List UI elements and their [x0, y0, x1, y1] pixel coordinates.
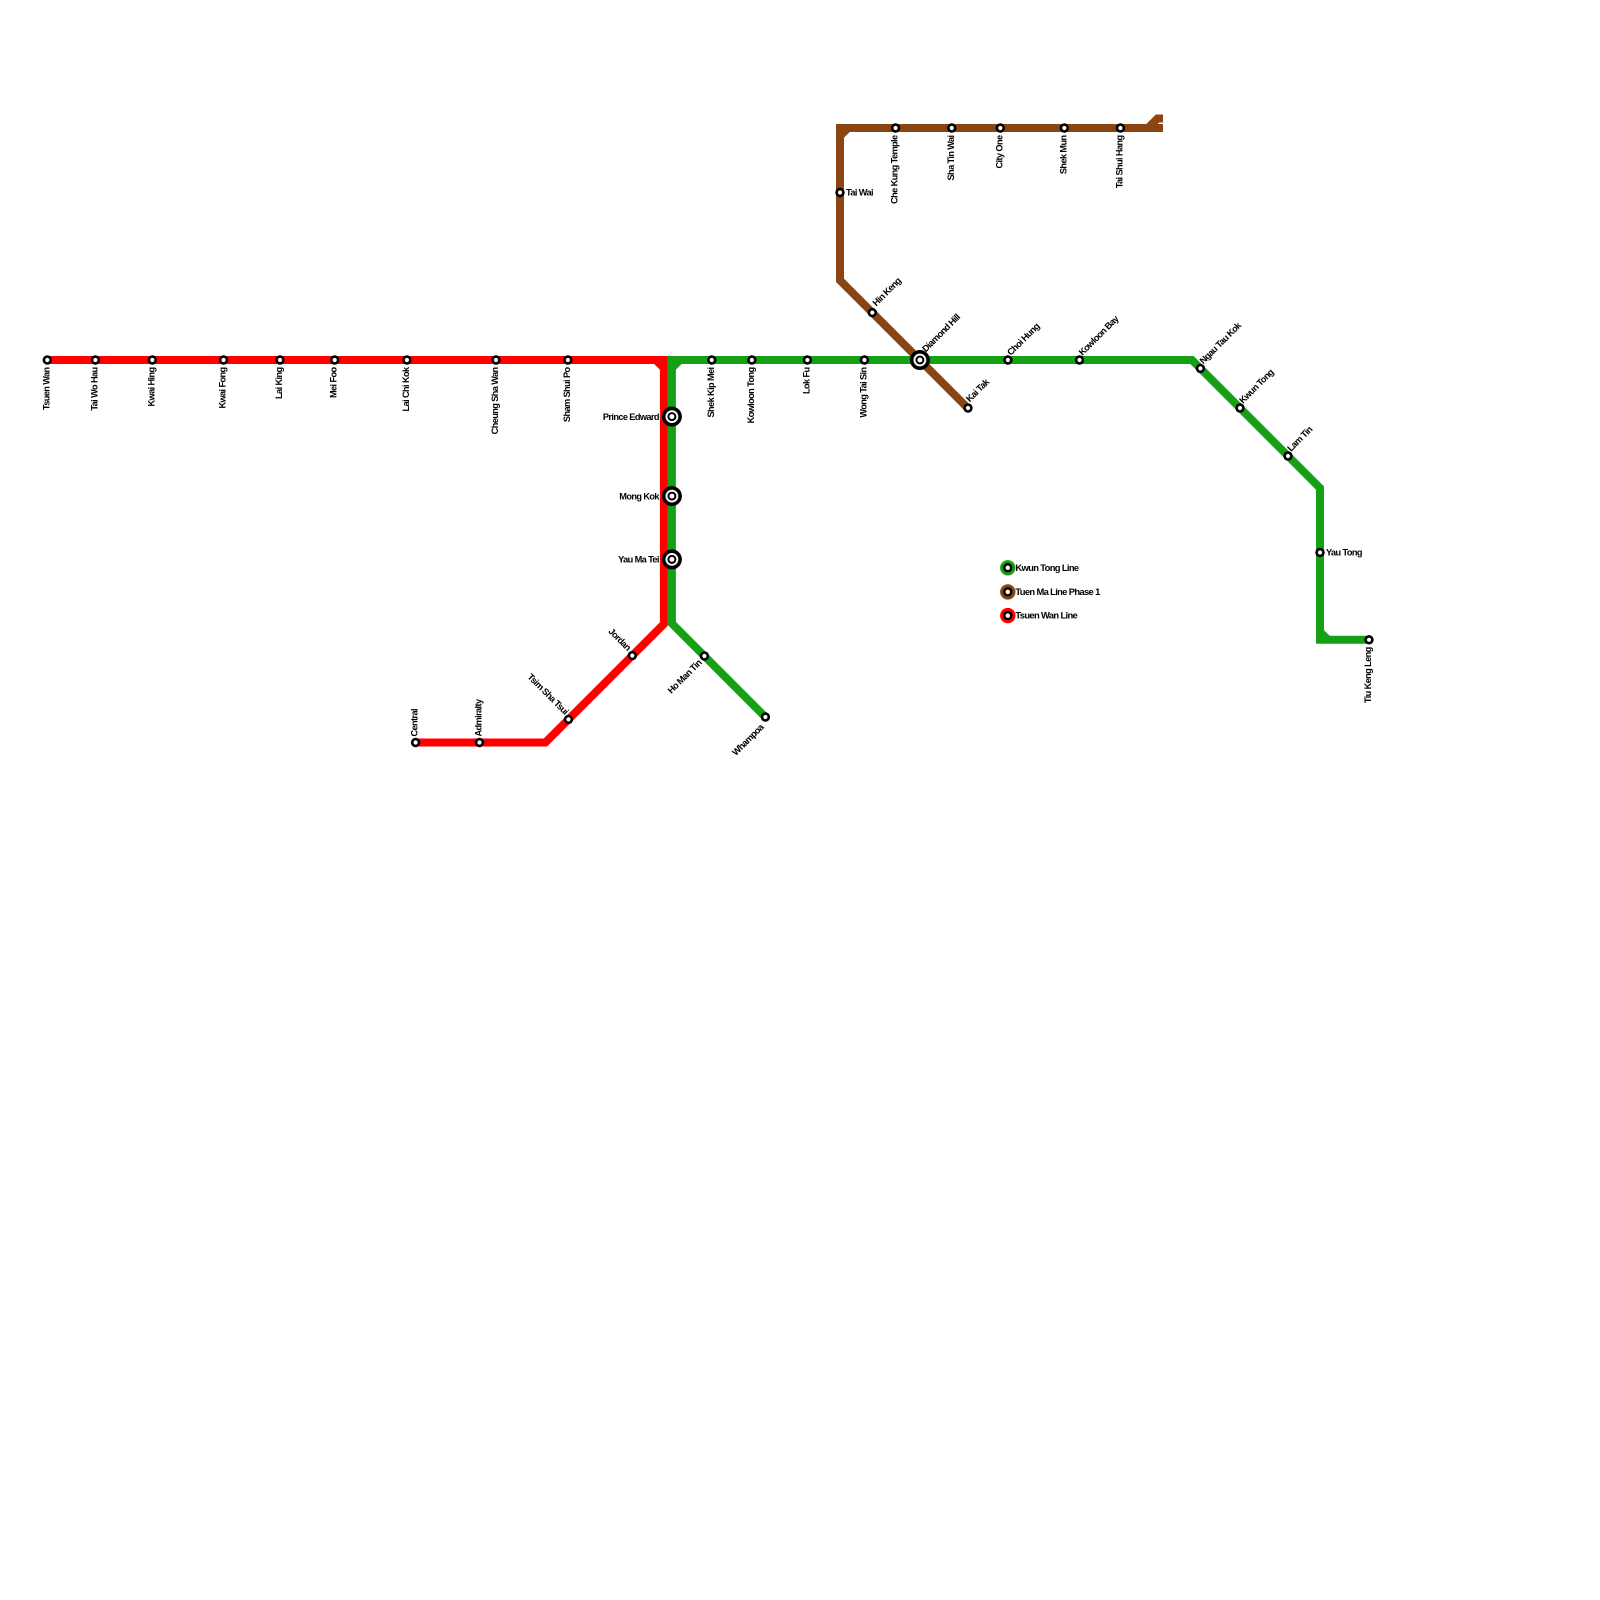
svg-text:Tai Wo Hau: Tai Wo Hau	[89, 368, 99, 411]
svg-text:Tiu Keng Leng: Tiu Keng Leng	[1363, 647, 1373, 703]
svg-text:Kowloon Tong: Kowloon Tong	[746, 368, 756, 424]
svg-text:Sha Tin Wai: Sha Tin Wai	[946, 135, 956, 180]
svg-text:Yau Ma Tei: Yau Ma Tei	[618, 555, 659, 565]
svg-text:Shek Kip Mei: Shek Kip Mei	[706, 367, 716, 417]
svg-text:Lok Fu: Lok Fu	[801, 368, 811, 395]
svg-text:City One: City One	[994, 135, 1004, 168]
svg-text:Che Kung Temple: Che Kung Temple	[890, 135, 900, 204]
svg-text:Sham Shui Po: Sham Shui Po	[562, 367, 572, 423]
svg-text:Central: Central	[410, 709, 420, 737]
svg-text:Lai King: Lai King	[274, 368, 284, 399]
svg-text:Tsuen Wan Line: Tsuen Wan Line	[1015, 610, 1077, 621]
svg-text:Kwai Fong: Kwai Fong	[218, 368, 228, 409]
svg-text:Mong Kok: Mong Kok	[619, 491, 660, 501]
svg-text:Admiralty: Admiralty	[474, 698, 484, 736]
svg-text:Kwai Hing: Kwai Hing	[146, 368, 156, 407]
svg-text:Lai Chi Kok: Lai Chi Kok	[401, 366, 411, 411]
svg-text:Yau Tong: Yau Tong	[1326, 548, 1362, 558]
svg-text:Tai Wai: Tai Wai	[846, 188, 873, 198]
svg-text:Kwun Tong Line: Kwun Tong Line	[1015, 562, 1079, 573]
svg-text:Tuen Ma Line Phase 1: Tuen Ma Line Phase 1	[1015, 586, 1100, 597]
svg-text:Cheung Sha Wan: Cheung Sha Wan	[490, 367, 500, 435]
svg-text:Mei Foo: Mei Foo	[329, 367, 339, 398]
svg-text:Wong Tai Sin: Wong Tai Sin	[858, 367, 868, 418]
svg-text:Tai Shui Hang: Tai Shui Hang	[1114, 136, 1124, 189]
svg-text:Prince Edward: Prince Edward	[603, 412, 659, 422]
svg-text:Tsuen Wan: Tsuen Wan	[41, 367, 51, 411]
svg-text:Shek Mun: Shek Mun	[1058, 135, 1068, 175]
